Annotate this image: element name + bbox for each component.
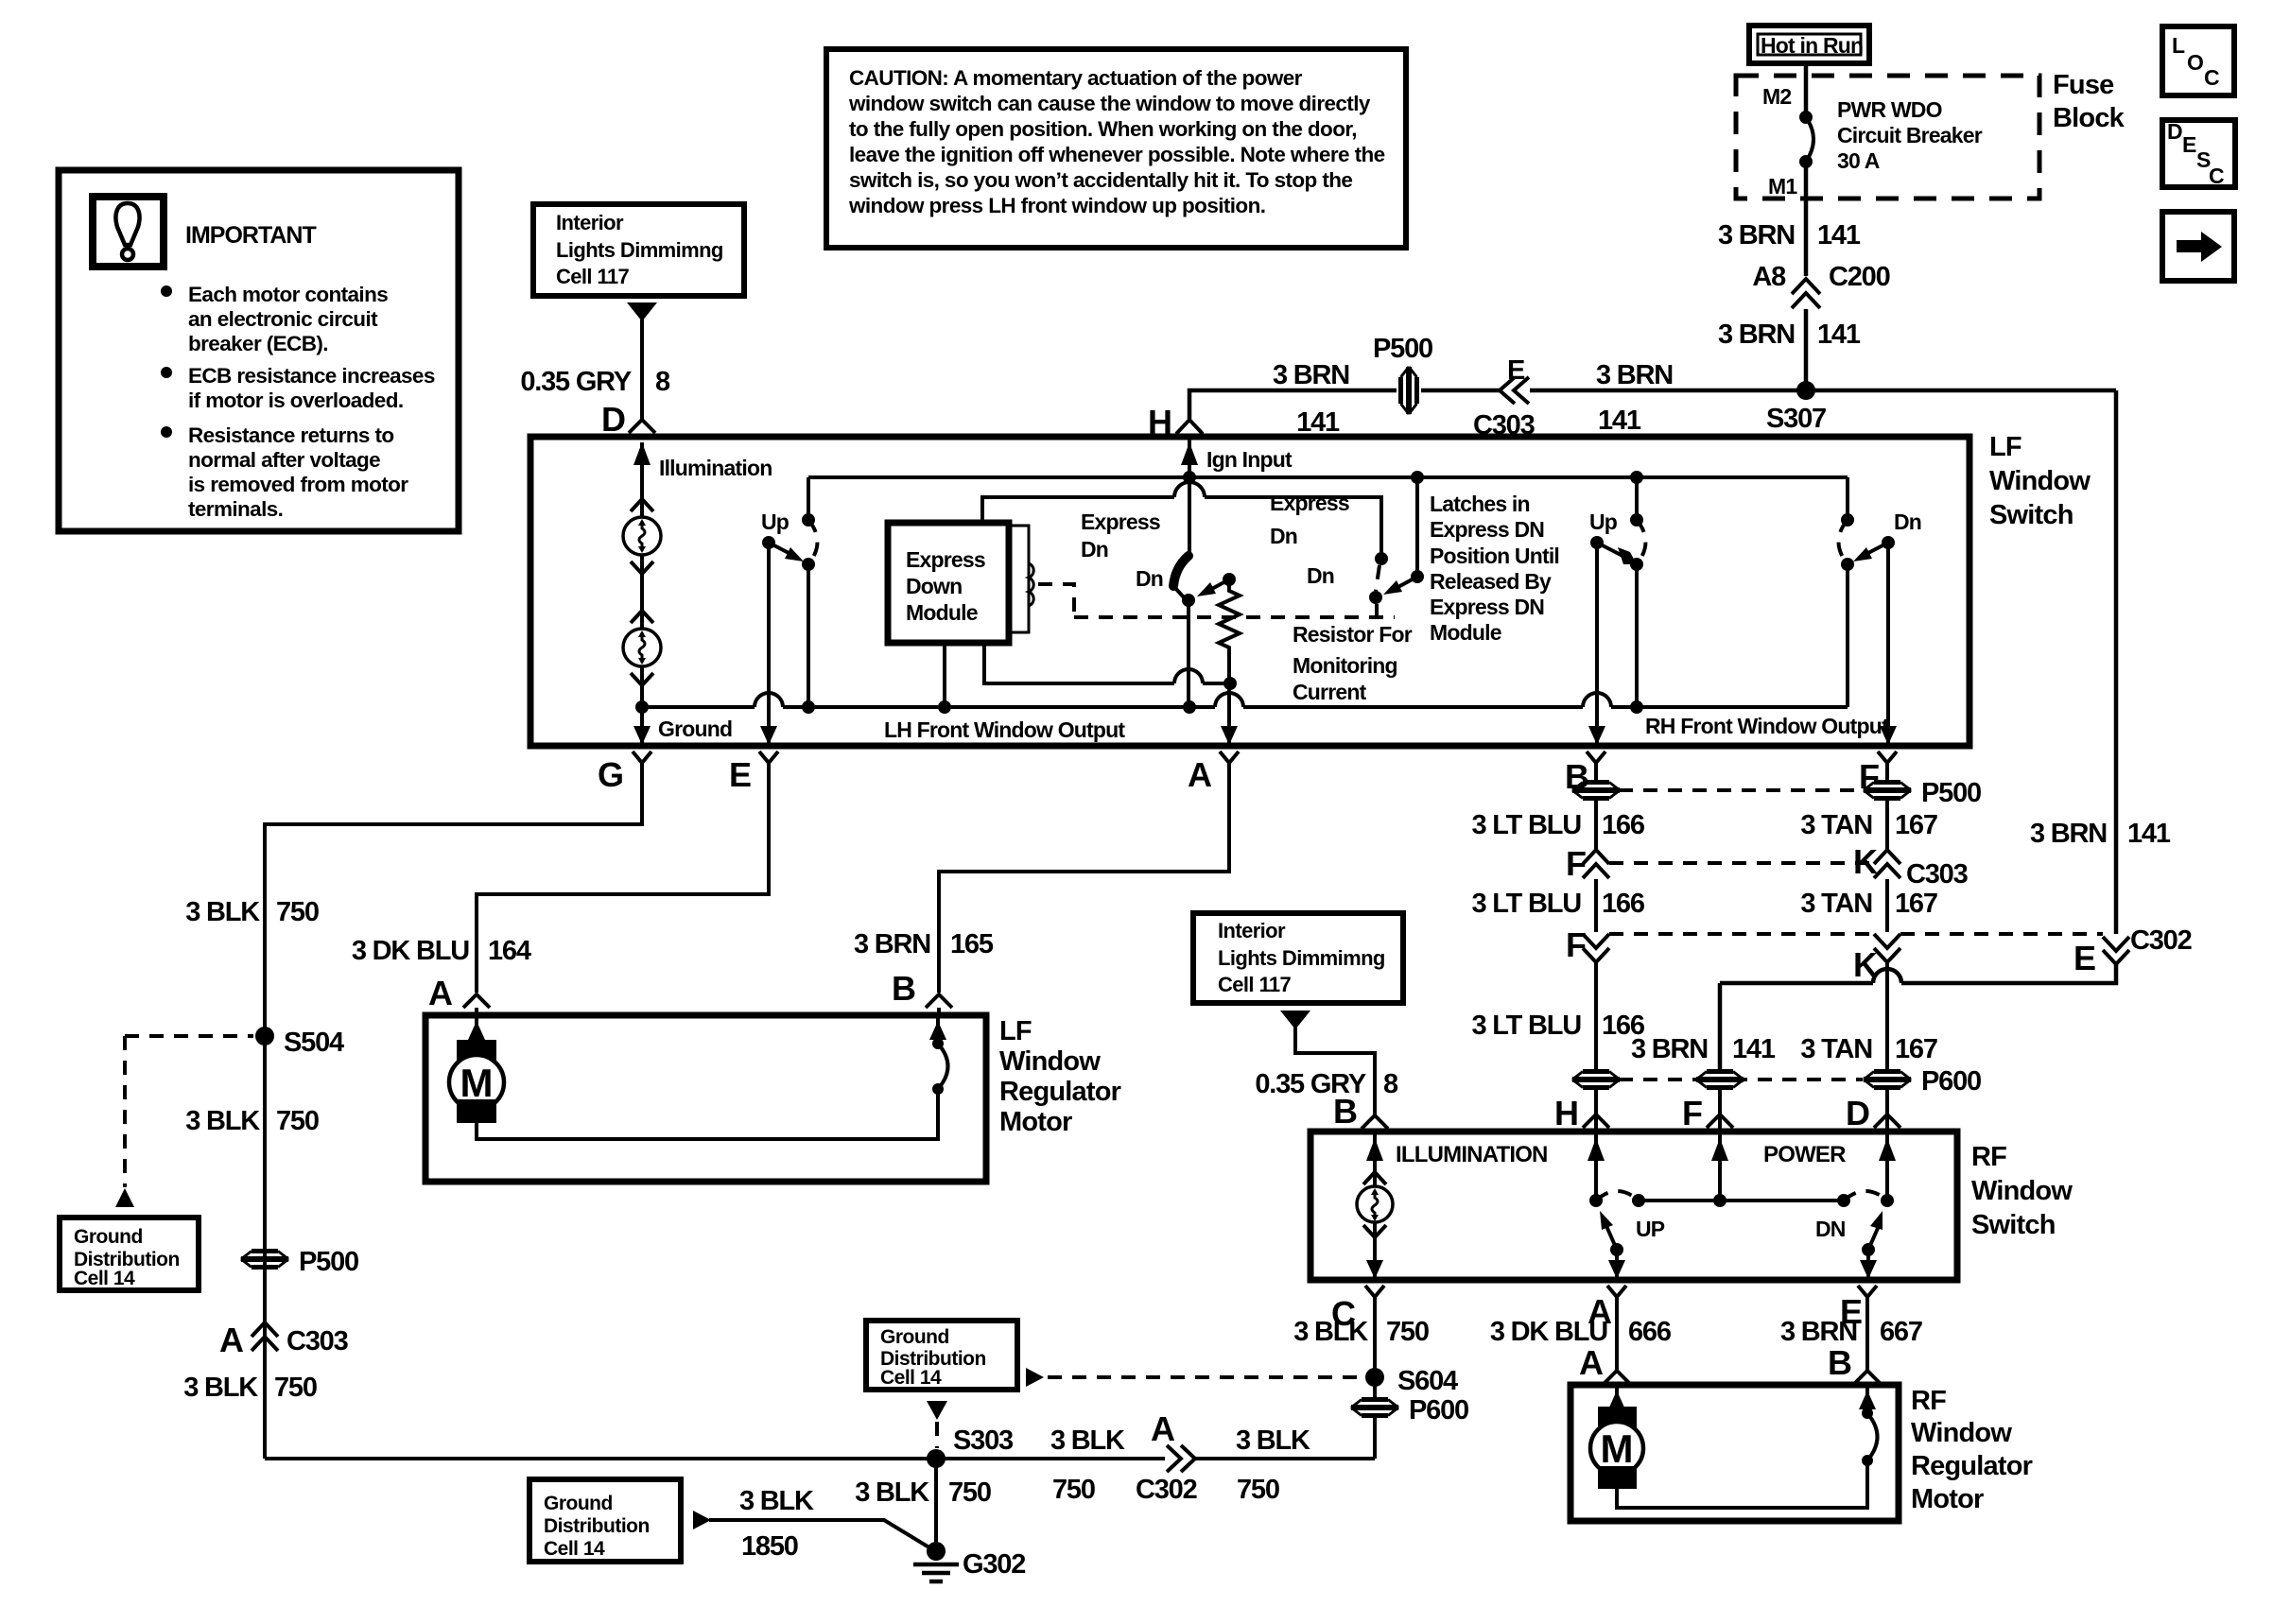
monitor arm with arrow [1208,579,1229,591]
svg-text:POWER: POWER [1763,1142,1846,1167]
svg-text:M: M [460,1061,494,1105]
wire label 3 TAN 167 (3) [1885,962,1889,1070]
svg-text:141: 141 [1817,220,1861,251]
svg-text:A: A [1188,755,1212,794]
motor brush block top [1598,1407,1637,1429]
wire 3 BLK 750 [265,773,642,1459]
svg-text:Express: Express [1270,491,1349,515]
svg-text:141: 141 [1817,320,1861,350]
ground distribution box (middle) [866,1321,1017,1390]
svg-text:Down: Down [906,574,962,598]
svg-text:F: F [1682,1094,1703,1132]
svg-text:P500: P500 [1373,334,1432,364]
pin B illumination entry [1373,1132,1377,1280]
pin A connector below box [1220,752,1239,763]
svg-text:Circuit Breaker: Circuit Breaker [1837,123,1983,147]
svg-text:C303: C303 [286,1326,349,1356]
svg-text:Ground: Ground [74,1226,143,1248]
grommet P600 (S604) [1351,1400,1398,1416]
svg-text:Window: Window [999,1046,1101,1077]
pin A connector of LF motor [463,994,490,1008]
dashed throw arc [808,520,818,564]
svg-text:LF: LF [1989,432,2021,462]
grommet P500 (ground wire) [241,1252,288,1268]
fuse block dashed box [1736,76,2039,199]
illumination bulb 2 [623,629,661,666]
wire: hot in run to breaker [1804,63,1809,117]
svg-text:Motor: Motor [1911,1484,1984,1514]
svg-text:667: 667 [1880,1317,1922,1347]
important note box frame [59,170,459,531]
svg-text:K: K [1853,842,1878,881]
RF pin A connector below [1607,1286,1626,1297]
triangle arrow from box [1280,1011,1310,1029]
svg-text:E: E [2182,132,2196,157]
RF illumination bulb [1357,1186,1393,1222]
wire module top to y=526 line [982,497,1174,523]
svg-text:3 TAN: 3 TAN [1800,1034,1872,1064]
grommet P500 (F column) [1864,783,1911,799]
svg-text:Dn: Dn [1081,537,1108,561]
svg-text:Ground: Ground [658,717,732,741]
internal power bus y=505 [808,475,1848,479]
svg-text:Interior: Interior [1218,919,1286,942]
motor brush block bottom [457,1099,496,1123]
svg-text:normal after voltage: normal after voltage [188,448,380,472]
pivot dot [762,536,775,549]
lower contact dot [1841,558,1854,571]
motor internal bottom wire [477,1089,938,1139]
motor brush block bottom [1598,1466,1637,1489]
wire up contact [807,477,810,520]
svg-text:C303: C303 [1906,859,1969,890]
svg-text:Interior: Interior [556,211,624,234]
svg-text:G: G [598,755,624,794]
wire lower contact to bus [807,564,810,707]
grommet P600 (D column) [1864,1072,1911,1088]
svg-text:C: C [2204,65,2220,90]
hop over pin A wire [1215,693,1243,707]
wire label 3 LT BLU 166 (2) [1594,879,1598,932]
svg-text:S504: S504 [284,1028,344,1058]
svg-text:8: 8 [1383,1069,1398,1099]
svg-text:Dn: Dn [1307,563,1334,588]
svg-text:A: A [1579,1343,1604,1382]
svg-text:switch is, so you won’t accide: switch is, so you won’t accidentally hit… [849,168,1352,192]
motor lead B [936,1015,940,1044]
svg-text:S303: S303 [953,1425,1014,1456]
svg-text:Hot in Run: Hot in Run [1761,33,1863,58]
express latch switch upper contact [1375,552,1388,565]
ground G302 [927,1542,946,1561]
motor ECB arc [932,1083,944,1095]
svg-text:Dn: Dn [1270,524,1297,548]
relay coil bracket [1009,526,1029,632]
svg-text:breaker (ECB).: breaker (ECB). [188,332,328,355]
svg-text:3 BRN: 3 BRN [854,929,930,959]
exclamation mark icon [115,203,139,245]
wire: C200 to S307 [1804,309,1809,390]
pin B connector below box [1587,752,1605,763]
wire contact to output bus [1187,600,1190,707]
dashed arc RF up [1596,1191,1639,1201]
dashed branch to ground distribution [125,1034,253,1038]
latch blade arm with arrow [1395,577,1417,589]
splice S604 [1365,1368,1384,1387]
wire to RF pin H [1594,1088,1598,1132]
svg-text:UP: UP [1636,1217,1665,1241]
svg-text:141: 141 [2127,819,2171,849]
svg-text:RF: RF [1971,1142,2006,1172]
chevron above RF bulb [1363,1172,1386,1184]
pin E connector below box [759,752,778,763]
svg-text:167: 167 [1895,889,1937,919]
wire lower contact to output bus [1846,564,1849,707]
svg-text:PWR WDO: PWR WDO [1837,97,1942,122]
svg-text:B: B [1333,1092,1358,1131]
RF power input wire (pin F) [1718,1132,1722,1201]
RF pin C connector below [1365,1286,1384,1297]
svg-text:F: F [1566,925,1587,964]
svg-text:3 BLK: 3 BLK [1293,1317,1368,1347]
hop over express switch wire [1174,669,1203,683]
svg-text:H: H [1554,1094,1579,1132]
svg-text:G302: G302 [963,1549,1025,1580]
svg-text:A: A [219,1321,244,1359]
motor M lead A [1615,1385,1619,1407]
svg-text:Distribution: Distribution [544,1515,650,1537]
svg-text:Dn: Dn [1894,510,1921,534]
dashed blade tip [1175,588,1184,597]
connector C200 pin A8 (double chevron) [1792,279,1820,294]
pin B connector of RF motor [1854,1371,1881,1384]
wire 3 BRN 165 [939,773,1229,993]
connector C303 pin F (double up chevron) [1583,850,1609,864]
svg-text:Ground: Ground [544,1493,613,1514]
svg-text:Window: Window [1971,1176,2073,1206]
svg-text:M: M [1601,1426,1634,1471]
wire module output to bus [943,643,946,707]
arrow box [2162,212,2234,281]
svg-text:LH Front Window Output: LH Front Window Output [884,717,1125,742]
svg-text:S604: S604 [1397,1366,1458,1396]
svg-text:P600: P600 [1921,1066,1981,1097]
svg-text:750: 750 [1052,1475,1095,1505]
hop over ign wire [1174,482,1205,497]
blade arm with arrow [1597,543,1626,558]
svg-text:Express DN: Express DN [1430,517,1544,542]
svg-text:166: 166 [1602,889,1645,919]
grommet P500 (B column) [1572,783,1620,799]
junction dot ign [1183,471,1196,484]
svg-text:3 LT BLU: 3 LT BLU [1471,889,1581,919]
svg-text:166: 166 [1602,810,1645,840]
wire to RF pin F [1718,1088,1722,1132]
svg-text:3 BRN: 3 BRN [1631,1034,1708,1064]
wire lower contact to output bus [1635,564,1639,707]
pin D connector + label above box [629,420,655,433]
wire label 3 TAN 167 (2) [1885,879,1889,932]
blade arm with arrow [769,543,792,555]
svg-text:141: 141 [1732,1034,1776,1064]
svg-text:3 BLK: 3 BLK [183,1373,258,1403]
motor lead B [1865,1385,1869,1413]
svg-text:3 DK BLU: 3 DK BLU [352,936,469,966]
pivot dot [1882,536,1895,549]
motor internal bottom wire [1617,1460,1867,1508]
important icon box [93,197,164,267]
chevron below RF bulb [1363,1225,1386,1237]
svg-text:M2: M2 [1762,84,1791,109]
svg-text:D: D [2167,119,2183,144]
svg-text:CAUTION: A momentary actuatio: CAUTION: A momentary actuation of the po… [849,66,1303,90]
motor M circle [449,1055,504,1110]
lower contact dot [1630,558,1643,571]
svg-text:if motor is overloaded.: if motor is overloaded. [188,389,404,412]
svg-text:C: C [2209,164,2225,188]
svg-text:Cell 14: Cell 14 [74,1268,135,1289]
svg-text:Latches in: Latches in [1430,492,1530,516]
svg-text:8: 8 [655,367,670,397]
connector C303 pin A (double up chevron) [252,1322,278,1337]
pin B connector of RF switch [1362,1115,1388,1129]
svg-text:Illumination: Illumination [659,456,772,480]
svg-text:L: L [2172,33,2185,58]
LF RH Dn switch [1846,477,1849,520]
svg-text:Fuse: Fuse [2053,70,2114,100]
svg-text:Switch: Switch [1989,500,2073,530]
wire 3 BLK 750 bus [265,1457,1165,1460]
arrow up at illumination input [633,442,651,465]
svg-text:C302: C302 [2130,925,2192,956]
svg-text:Position Until: Position Until [1430,544,1559,568]
junction dot latch branch [1411,471,1424,484]
splice S504 [255,1027,274,1045]
Hot in Run box [1749,26,1869,63]
svg-text:164: 164 [488,936,531,966]
lower contact dot [802,558,815,571]
pivot dot [1590,536,1604,549]
wire: C303 to S307 and right end [1530,389,2116,393]
bullet 1 dot [161,285,172,297]
svg-text:E: E [1507,355,1525,386]
svg-text:Resistance returns to: Resistance returns to [188,423,393,447]
bullet 3 dot [161,426,172,438]
dashed P600 row [1619,1078,1707,1081]
dashed C302 row [1609,932,1874,936]
wire ign to express switch [1188,477,1191,554]
svg-text:A: A [1151,1409,1175,1448]
svg-text:3 BRN: 3 BRN [1273,360,1349,390]
svg-text:3 BLK: 3 BLK [1236,1425,1310,1456]
ground distribution box (left) [60,1218,199,1290]
svg-text:3 BRN: 3 BRN [1596,360,1673,390]
svg-text:RF: RF [1911,1386,1946,1416]
svg-text:ILLUMINATION: ILLUMINATION [1396,1142,1548,1167]
svg-text:Switch: Switch [1971,1210,2056,1240]
relay coil [1029,563,1033,606]
circuit breaker PWR WDO 30A [1799,111,1813,124]
connector C302 pin E (double down chevron) [2103,937,2129,951]
svg-text:E: E [2073,939,2096,977]
svg-text:O: O [2187,50,2204,75]
svg-text:window press LH front window u: window press LH front window up position… [848,194,1265,217]
wire hop over D column [1873,969,1901,983]
svg-text:3 BLK: 3 BLK [739,1486,814,1516]
svg-text:3 TAN: 3 TAN [1800,810,1872,840]
junction dot ground node [635,700,649,714]
wire 3 DK BLU 164 [477,773,769,993]
pin A connector of RF motor [1604,1371,1630,1384]
LF RH Up switch [1635,477,1639,520]
pin G exit wire + arrow [640,707,644,746]
svg-text:an electronic circuit: an electronic circuit [188,307,378,331]
svg-text:750: 750 [276,897,319,927]
svg-text:B: B [892,969,916,1008]
svg-text:Regulator: Regulator [1911,1451,2033,1481]
svg-text:Window: Window [1911,1418,2012,1448]
svg-text:750: 750 [274,1373,317,1403]
wire label 3 TAN 167 [1885,799,1889,849]
illumination bulb 1 [623,517,661,555]
svg-text:Block: Block [2053,103,2126,133]
svg-text:Module: Module [906,600,978,625]
wire ground bus [642,705,755,709]
svg-text:LF: LF [999,1016,1032,1046]
svg-text:Cell 14: Cell 14 [880,1367,942,1389]
svg-text:S307: S307 [1766,404,1826,434]
RF dn blade [1862,1243,1875,1256]
svg-text:3 BRN: 3 BRN [1718,320,1795,350]
svg-text:Cell 14: Cell 14 [544,1538,605,1560]
lower contact dot [1182,594,1195,607]
svg-text:Ign Input: Ign Input [1206,447,1293,472]
wire: breaker to C200 [1804,162,1809,276]
svg-text:D: D [601,400,626,439]
resistor for monitoring current [1223,573,1236,586]
motor M circle [1590,1422,1643,1475]
wire pivot to pin E [767,543,771,746]
svg-text:A: A [428,974,453,1012]
triangle down to S303 [927,1401,947,1420]
svg-text:RH Front Window Output: RH Front Window Output [1645,714,1889,738]
svg-text:Express: Express [906,547,985,572]
wire label 3 LT BLU 166 [1594,799,1598,849]
svg-text:leave the ignition off wheneve: leave the ignition off whenever possible… [849,143,1385,166]
module box [888,523,1009,643]
svg-text:P500: P500 [1921,778,1981,808]
wire resistor node to pin A [1227,683,1231,746]
svg-text:K: K [1853,945,1878,984]
grommet P600 (H column) [1572,1072,1620,1088]
dashed link to lower contact [1376,565,1379,591]
wire: P500 to C303 [1421,389,1501,393]
svg-text:C200: C200 [1829,262,1890,292]
wire label 3 LT BLU 166 (3) [1594,962,1598,1070]
wire: down right side to C302 [2114,390,2119,934]
svg-text:Express: Express [1081,510,1160,534]
chevron above bulb 2 [631,611,653,623]
svg-text:Each motor contains: Each motor contains [188,283,388,306]
RF dn switch input wire (pin D) [1885,1132,1889,1201]
svg-text:3 BLK: 3 BLK [1050,1425,1125,1456]
svg-text:Regulator: Regulator [999,1077,1121,1107]
chevron above bulb 1 [631,499,653,511]
svg-text:3 BRN: 3 BRN [2030,819,2107,849]
svg-text:window switch can cause the wi: window switch can cause the window to mo… [848,92,1371,115]
motor brush block top [457,1040,496,1063]
svg-text:750: 750 [276,1106,319,1136]
svg-text:3 LT BLU: 3 LT BLU [1471,810,1581,840]
pin G connector below box [633,752,651,763]
svg-text:141: 141 [1296,407,1340,438]
pin B connector of LF motor [926,994,952,1008]
splice S307 [1796,381,1815,400]
dashed P500 row [1619,788,1865,792]
svg-text:Dn: Dn [1136,566,1163,591]
triangle arrow from box [627,302,657,321]
grommet P600 (F column) [1696,1072,1744,1088]
latch switch pivot wire [1415,477,1419,577]
chevron below bulb 1 [631,561,653,574]
svg-text:Cell 117: Cell 117 [1218,973,1292,996]
svg-text:750: 750 [1237,1475,1279,1505]
wire S303 to G302 [934,1459,938,1551]
connector H chevron into LF switch [1176,420,1203,434]
svg-text:Lights Dimmimng: Lights Dimmimng [1218,946,1385,970]
connector C302 pin A (double right chevron) [1167,1445,1181,1472]
connector C303 pin K (double up chevron) [1874,850,1900,864]
svg-text:167: 167 [1895,1034,1937,1064]
dashed link coil to latch [1038,584,1074,617]
svg-text:P600: P600 [1409,1395,1468,1425]
RF up switch input wire (pin H) [1594,1132,1598,1201]
svg-text:D: D [1846,1094,1870,1132]
svg-text:0.35 GRY: 0.35 GRY [520,367,632,397]
blade arm with arrow [1865,543,1888,555]
wire pivot to pin F [1886,543,1890,746]
svg-text:3 BRN: 3 BRN [1718,220,1795,251]
svg-text:167: 167 [1895,810,1937,840]
wire illumination chain [640,452,644,707]
wire: H corner to P500 [1189,390,1397,419]
svg-text:E: E [729,755,752,794]
LOC box [2162,26,2234,95]
wire to RF pin D [1885,1088,1889,1132]
express down switch blade (thick) [1173,556,1189,586]
svg-text:M1: M1 [1768,174,1797,199]
svg-text:Up: Up [1589,510,1618,534]
pin H ign input [1188,437,1191,477]
wire module to resistor bottom [984,643,1174,683]
wire to express latch contact [1205,497,1381,559]
svg-text:750: 750 [1386,1317,1429,1347]
RF power bus [1639,1199,1844,1202]
svg-text:A8: A8 [1752,262,1786,292]
svg-text:Ground: Ground [880,1326,949,1348]
dashed latch contact drop [1375,604,1379,617]
wire 0.35 GRY 8 to RF pin B [1295,1028,1375,1115]
svg-text:B: B [1828,1343,1852,1382]
svg-text:30 A: 30 A [1837,148,1880,173]
svg-text:1850: 1850 [741,1531,798,1562]
svg-text:Lights Dimmimng: Lights Dimmimng [556,238,723,262]
svg-text:750: 750 [948,1477,991,1508]
svg-text:3 BLK: 3 BLK [855,1477,929,1508]
svg-text:666: 666 [1628,1317,1672,1347]
dashed arc RF dn [1844,1191,1887,1201]
svg-text:P500: P500 [299,1247,358,1277]
